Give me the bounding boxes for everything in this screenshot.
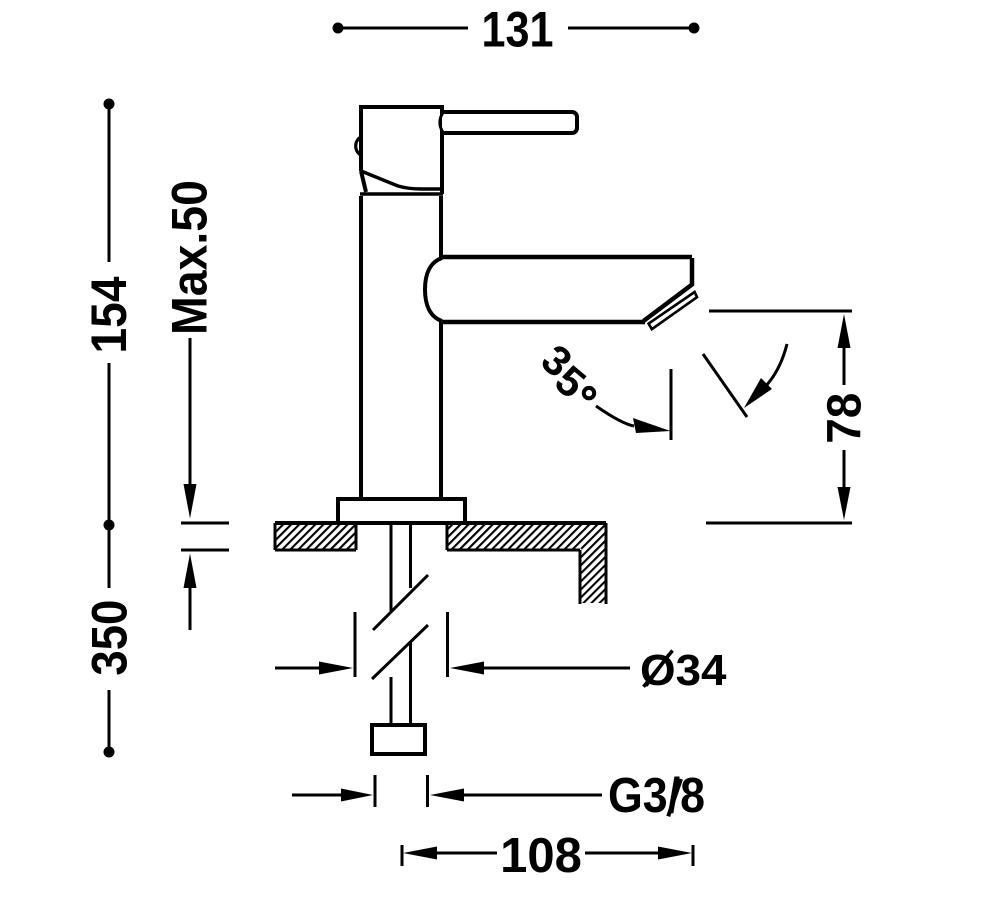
svg-text:G3/8: G3/8 [608, 769, 705, 823]
svg-text:108: 108 [500, 829, 582, 883]
svg-text:Max.50: Max.50 [162, 180, 218, 335]
svg-text:Ø34: Ø34 [640, 646, 727, 695]
svg-text:350: 350 [81, 600, 137, 676]
svg-text:131: 131 [482, 1, 554, 57]
svg-text:154: 154 [81, 276, 137, 353]
svg-text:78: 78 [819, 393, 872, 444]
